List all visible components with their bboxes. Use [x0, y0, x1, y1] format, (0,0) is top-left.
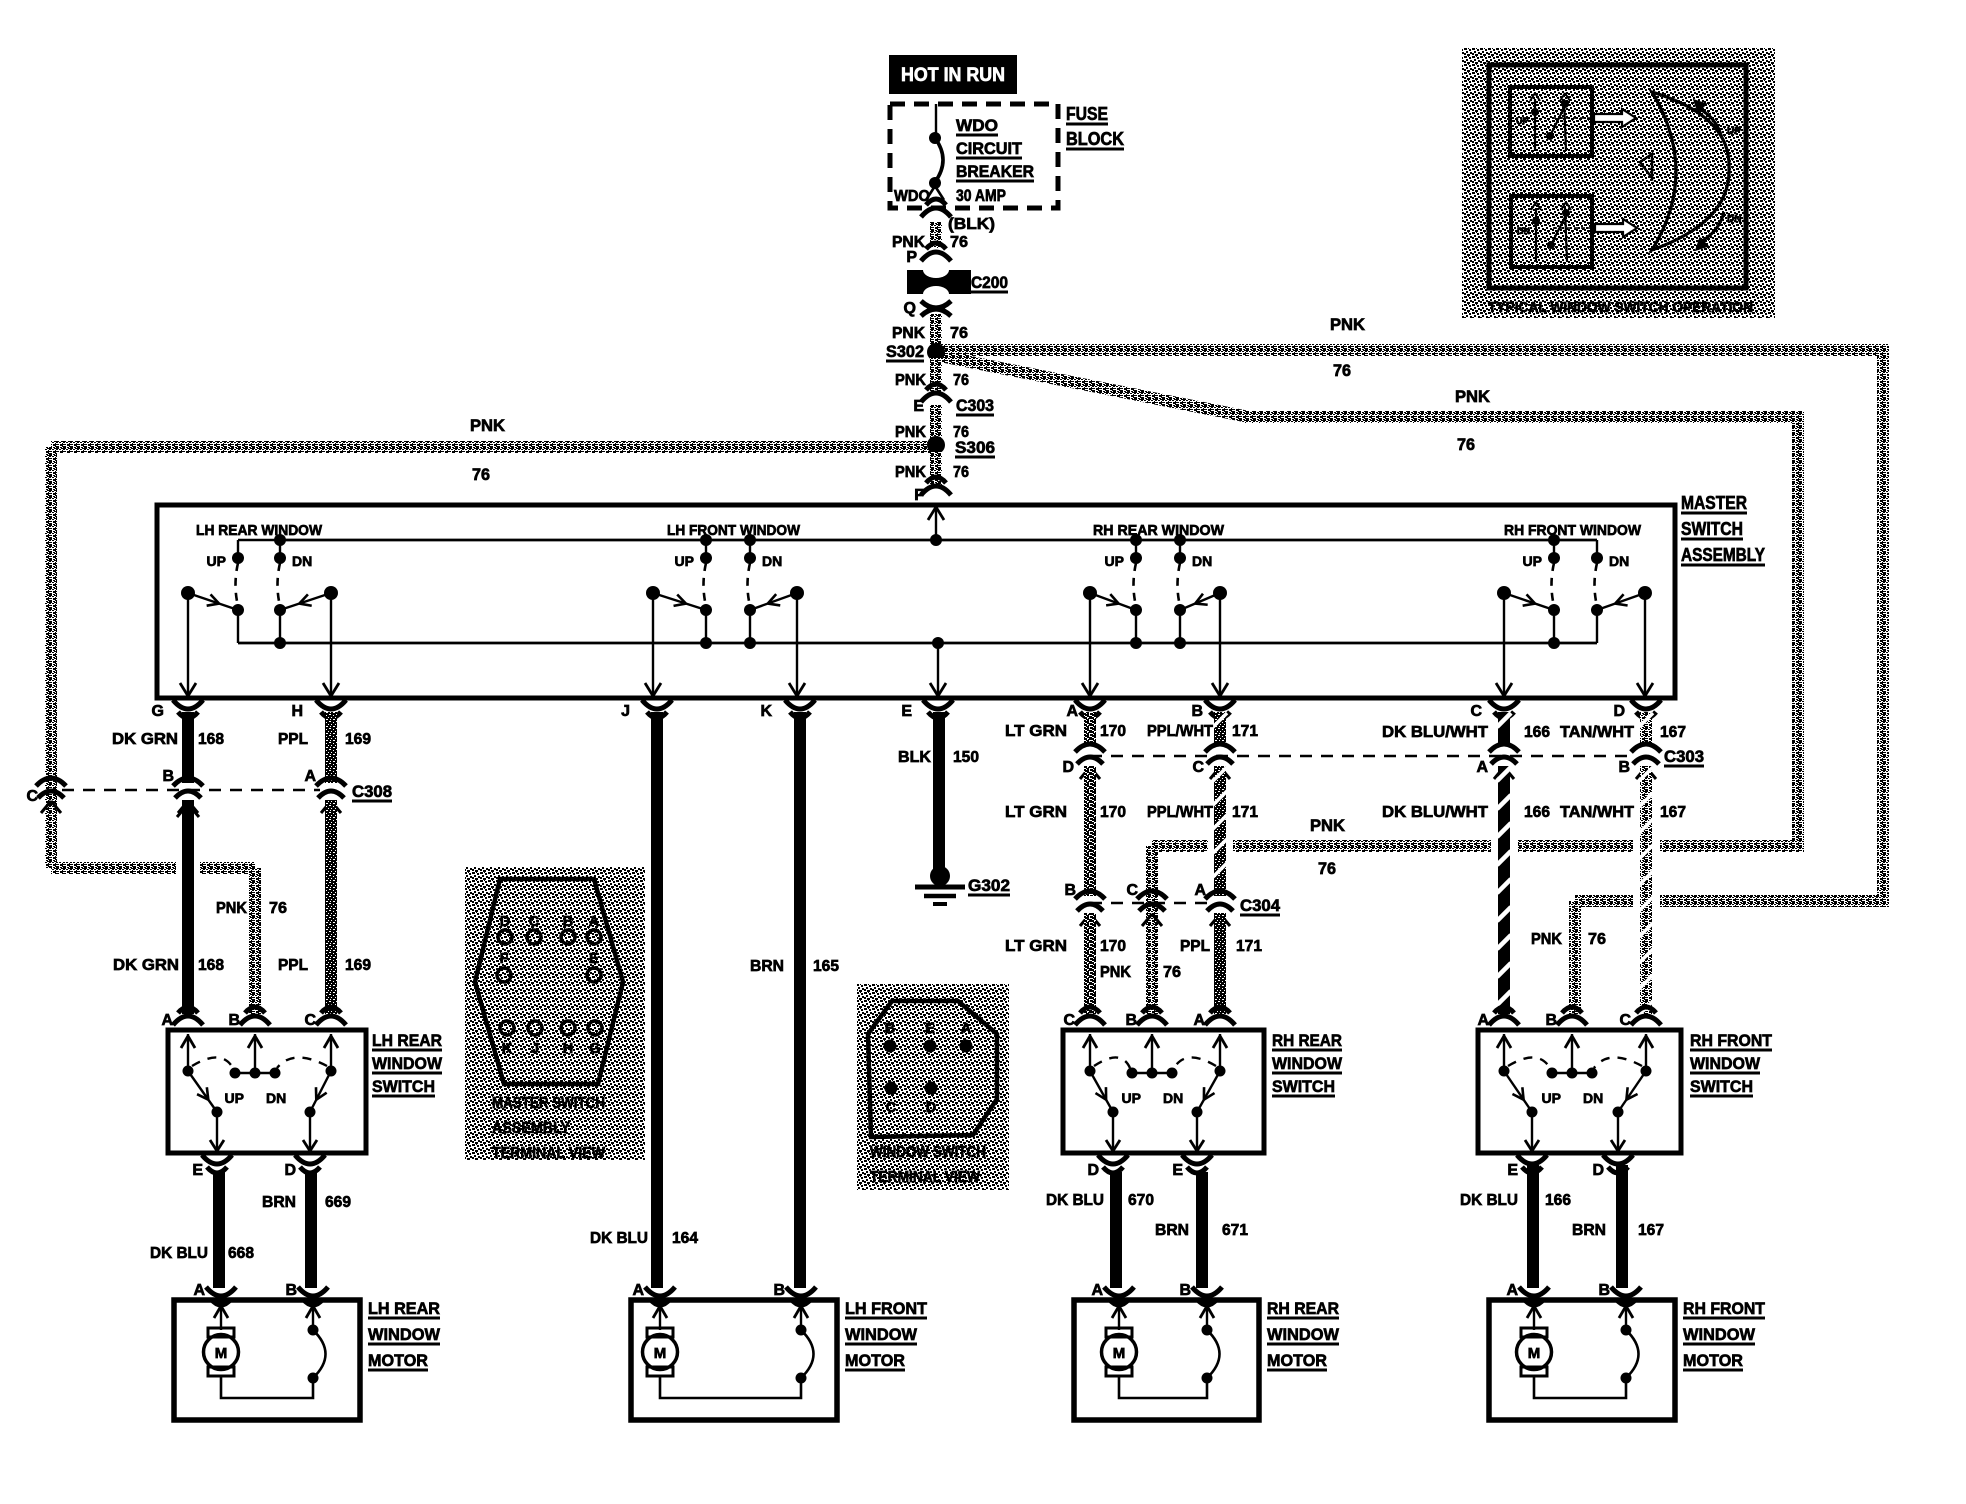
- svg-text:SWITCH: SWITCH: [372, 1077, 435, 1096]
- svg-text:MOTOR: MOTOR: [1267, 1351, 1327, 1370]
- svg-text:LH REAR: LH REAR: [372, 1031, 442, 1050]
- connector C200 body: [907, 270, 971, 294]
- wire PNK 76 from S302 right to right margin: [942, 344, 1889, 356]
- svg-text:DN: DN: [266, 1090, 286, 1106]
- svg-text:165: 165: [813, 958, 839, 975]
- svg-text:76: 76: [950, 325, 968, 342]
- svg-text:C: C: [1470, 703, 1482, 720]
- svg-text:P: P: [906, 249, 917, 266]
- svg-text:A: A: [1476, 759, 1488, 776]
- svg-text:D: D: [926, 1100, 936, 1116]
- svg-text:671: 671: [1222, 1222, 1248, 1239]
- wire PNK 76 C303 to S306: [930, 405, 942, 441]
- svg-text:ASSEMBLY: ASSEMBLY: [492, 1120, 570, 1137]
- LH front window motor: [631, 1282, 928, 1420]
- crossing gap PNK under DK BLU/WHT: [1491, 838, 1518, 855]
- svg-text:G: G: [589, 1041, 600, 1057]
- svg-text:J: J: [531, 1041, 539, 1057]
- svg-text:170: 170: [1100, 804, 1126, 821]
- svg-text:167: 167: [1638, 1222, 1664, 1239]
- connector C304 pin A: [1205, 891, 1235, 899]
- typical window switch operation inset panel: [1462, 48, 1775, 318]
- svg-text:(BLK): (BLK): [948, 216, 995, 233]
- svg-text:PPL/WHT: PPL/WHT: [1147, 804, 1213, 821]
- bottom bus: [238, 642, 1597, 645]
- svg-text:BRN: BRN: [1572, 1222, 1606, 1239]
- svg-text:A: A: [304, 768, 316, 785]
- svg-text:B: B: [1598, 1282, 1610, 1299]
- svg-text:168: 168: [198, 957, 224, 974]
- connector C304 pin B: [1075, 891, 1105, 899]
- svg-text:PNK: PNK: [895, 424, 926, 441]
- svg-text:150: 150: [953, 749, 979, 766]
- svg-text:DK BLU: DK BLU: [1046, 1192, 1104, 1209]
- svg-text:C: C: [304, 1012, 316, 1029]
- svg-text:76: 76: [1457, 436, 1475, 454]
- svg-text:RH REAR WINDOW: RH REAR WINDOW: [1093, 523, 1224, 539]
- svg-text:MOTOR: MOTOR: [845, 1351, 905, 1370]
- svg-text:169: 169: [345, 957, 371, 974]
- crossing gap PNK under TAN/WHT: [1633, 838, 1660, 855]
- master switch terminal view hexagon: [475, 879, 623, 1084]
- svg-text:TYPICAL WINDOW SWITCH OPERATIO: TYPICAL WINDOW SWITCH OPERATION: [1488, 299, 1753, 316]
- svg-text:A: A: [1193, 1012, 1205, 1029]
- wire PNK 76 from S306 left to left margin: [51, 441, 934, 453]
- svg-text:PPL: PPL: [278, 731, 308, 748]
- svg-text:RH FRONT: RH FRONT: [1683, 1299, 1766, 1318]
- svg-text:PNK: PNK: [1455, 388, 1490, 406]
- svg-text:B: B: [1545, 1012, 1557, 1029]
- master box pin K: [785, 700, 815, 709]
- splice S302: [927, 343, 945, 361]
- wire PPL 169 lower: [325, 800, 337, 1014]
- svg-text:E: E: [1507, 1162, 1518, 1179]
- svg-text:DK GRN: DK GRN: [113, 957, 179, 974]
- svg-text:LT GRN: LT GRN: [1005, 938, 1067, 955]
- svg-text:B: B: [285, 1282, 297, 1299]
- svg-text:C: C: [26, 788, 38, 805]
- window switch terminal view panel: [857, 984, 1009, 1190]
- LH front window switch section: [645, 523, 805, 696]
- svg-text:RH FRONT WINDOW: RH FRONT WINDOW: [1504, 523, 1641, 539]
- wire PNK 76 S302 to C303: [930, 358, 942, 394]
- svg-text:UP: UP: [225, 1090, 244, 1106]
- svg-text:A: A: [589, 914, 600, 930]
- master switch assembly box: [157, 505, 1675, 698]
- svg-text:B: B: [1125, 1012, 1137, 1029]
- svg-text:E: E: [589, 951, 599, 967]
- svg-text:SWITCH: SWITCH: [1681, 519, 1743, 539]
- svg-text:C: C: [1192, 759, 1204, 776]
- svg-text:BRN: BRN: [262, 1194, 296, 1211]
- connector C303 pin A: [1489, 744, 1519, 752]
- svg-text:PNK: PNK: [1330, 316, 1365, 334]
- svg-text:DN: DN: [1192, 553, 1212, 569]
- svg-text:A: A: [161, 1012, 173, 1029]
- LH rear window motor: [174, 1282, 441, 1420]
- LH rear window switch section: [180, 523, 339, 696]
- svg-text:167: 167: [1660, 804, 1686, 821]
- svg-text:D: D: [500, 914, 510, 930]
- svg-text:DN: DN: [1609, 553, 1629, 569]
- svg-text:WINDOW: WINDOW: [1683, 1325, 1756, 1344]
- RH front window switch section: [1496, 523, 1653, 696]
- window switch terminal view outline: [868, 1001, 997, 1137]
- RH rear window switch: [1063, 1007, 1343, 1179]
- svg-text:UP: UP: [1542, 1090, 1561, 1106]
- svg-text:B: B: [162, 768, 174, 785]
- svg-text:PPL/WHT: PPL/WHT: [1147, 723, 1213, 740]
- svg-text:76: 76: [953, 372, 969, 389]
- svg-text:E: E: [925, 1021, 935, 1037]
- master box pin G: [173, 700, 203, 709]
- svg-text:DK BLU: DK BLU: [1460, 1192, 1518, 1209]
- wire PPL 169 upper: [325, 712, 337, 783]
- svg-text:670: 670: [1128, 1192, 1154, 1209]
- svg-text:E: E: [192, 1162, 203, 1179]
- svg-text:C: C: [1063, 1012, 1075, 1029]
- svg-text:WINDOW: WINDOW: [1690, 1054, 1761, 1073]
- svg-text:DN: DN: [1517, 226, 1530, 236]
- wire DK GRN 168 upper: [182, 712, 194, 783]
- connector C308 dashed line: [62, 789, 320, 791]
- svg-text:166: 166: [1524, 724, 1550, 741]
- arrow from UP sub-box: [1594, 109, 1636, 127]
- arrow from DN sub-box: [1595, 219, 1637, 237]
- wire PNK 76 S306 to master switch: [930, 452, 942, 487]
- wire BLK 150: [933, 712, 945, 869]
- svg-text:76: 76: [1588, 931, 1606, 948]
- svg-text:UP: UP: [1516, 116, 1529, 126]
- connector C303 pin B: [1631, 744, 1661, 752]
- svg-text:DN: DN: [762, 553, 782, 569]
- svg-text:MASTER SWITCH: MASTER SWITCH: [492, 1095, 605, 1112]
- wire TAN/WHT 167 lower: [1640, 766, 1652, 1014]
- svg-text:LH FRONT WINDOW: LH FRONT WINDOW: [667, 523, 800, 539]
- svg-text:A: A: [193, 1282, 205, 1299]
- wire PNK 76 second vertical (to RH rear): [1792, 417, 1804, 846]
- connector C308 pin B: [173, 778, 203, 786]
- svg-text:D: D: [1592, 1162, 1604, 1179]
- svg-text:TERMINAL VIEW: TERMINAL VIEW: [492, 1145, 606, 1162]
- svg-text:FUSE: FUSE: [1066, 104, 1108, 124]
- RH front window motor: [1489, 1282, 1766, 1420]
- svg-text:166: 166: [1545, 1192, 1571, 1209]
- wire TAN/WHT 167 upper: [1640, 712, 1652, 745]
- svg-text:B: B: [773, 1282, 785, 1299]
- master switch terminal pins: [497, 914, 602, 1057]
- svg-text:76: 76: [953, 464, 969, 481]
- svg-text:C308: C308: [352, 783, 392, 801]
- svg-text:166: 166: [1524, 804, 1550, 821]
- svg-text:LH REAR: LH REAR: [368, 1299, 440, 1318]
- wire PNK 76 C200 to S302: [930, 314, 942, 347]
- svg-text:DK BLU: DK BLU: [150, 1245, 208, 1262]
- svg-text:H: H: [291, 703, 303, 720]
- svg-text:MOTOR: MOTOR: [1683, 1351, 1743, 1370]
- svg-text:H: H: [563, 1041, 573, 1057]
- wire BRN 165: [794, 712, 806, 1288]
- svg-text:DK GRN: DK GRN: [112, 731, 178, 748]
- HOT IN RUN feed box: [889, 55, 1017, 94]
- wire DK BLU 670: [1110, 1172, 1122, 1288]
- svg-text:PPL: PPL: [1180, 938, 1210, 955]
- svg-text:B: B: [228, 1012, 240, 1029]
- wire PNK 76 left loop bottom horizontal: [51, 862, 255, 874]
- svg-text:C303: C303: [1664, 748, 1704, 766]
- master box pin E: [923, 700, 953, 709]
- svg-text:DK BLU/WHT: DK BLU/WHT: [1382, 804, 1488, 821]
- svg-text:WDO: WDO: [894, 188, 930, 205]
- master box pin D: [1631, 700, 1661, 709]
- svg-text:UP: UP: [1727, 126, 1741, 137]
- svg-text:BRN: BRN: [1155, 1222, 1189, 1239]
- wire BRN 671: [1196, 1172, 1208, 1288]
- svg-text:WDO: WDO: [956, 117, 998, 135]
- RH rear window motor: [1074, 1282, 1340, 1420]
- svg-text:RH REAR: RH REAR: [1267, 1299, 1339, 1318]
- svg-text:TERMINAL VIEW: TERMINAL VIEW: [870, 1169, 981, 1186]
- svg-text:C: C: [886, 1100, 897, 1116]
- svg-text:UP: UP: [1523, 553, 1542, 569]
- svg-text:UP: UP: [1122, 1090, 1141, 1106]
- svg-text:C303: C303: [956, 397, 994, 415]
- window switch terminal pins: [884, 1021, 973, 1116]
- svg-text:PPL: PPL: [278, 957, 308, 974]
- WDO circuit breaker symbol: [935, 104, 937, 136]
- svg-text:PNK: PNK: [892, 325, 925, 342]
- svg-text:76: 76: [950, 234, 968, 251]
- connector C308 pin C: [36, 778, 66, 786]
- pin E drop with arrow: [937, 643, 939, 696]
- svg-text:76: 76: [1318, 860, 1336, 878]
- svg-text:PNK: PNK: [1531, 931, 1562, 948]
- top bus: [280, 539, 1597, 542]
- svg-text:167: 167: [1660, 724, 1686, 741]
- svg-text:LT GRN: LT GRN: [1005, 804, 1067, 821]
- wire PPL 171 lower: [1214, 913, 1226, 1014]
- svg-text:A: A: [632, 1282, 644, 1299]
- svg-text:DK BLU: DK BLU: [590, 1230, 648, 1247]
- crossing gap PNK under PPL/WHT: [1208, 838, 1233, 855]
- master switch sub-box DN: [1511, 196, 1592, 267]
- svg-text:K: K: [760, 703, 772, 720]
- svg-text:D: D: [1062, 759, 1074, 776]
- svg-text:WINDOW: WINDOW: [1267, 1325, 1340, 1344]
- svg-text:M: M: [215, 1345, 228, 1362]
- wire BRN 669: [305, 1172, 317, 1288]
- svg-text:C304: C304: [1240, 897, 1281, 915]
- svg-text:C200: C200: [971, 274, 1008, 292]
- svg-text:169: 169: [345, 731, 371, 748]
- master switch assembly terminal view panel: [465, 867, 645, 1160]
- svg-text:M: M: [1113, 1345, 1126, 1362]
- svg-text:UP: UP: [1105, 553, 1124, 569]
- svg-text:DN: DN: [1727, 214, 1741, 225]
- master box pin H: [316, 700, 346, 709]
- svg-text:MASTER: MASTER: [1681, 493, 1747, 513]
- svg-text:76: 76: [1333, 362, 1351, 380]
- svg-text:A: A: [1066, 703, 1078, 720]
- bottom bus E junction: [932, 637, 944, 649]
- wire PNK 76 drop to LH rear switch pin B: [249, 868, 261, 1014]
- svg-text:F: F: [500, 951, 509, 967]
- svg-text:D: D: [1613, 703, 1625, 720]
- svg-text:669: 669: [325, 1194, 351, 1211]
- svg-text:MOTOR: MOTOR: [368, 1351, 428, 1370]
- svg-text:168: 168: [198, 731, 224, 748]
- svg-text:HOT IN RUN: HOT IN RUN: [901, 65, 1005, 86]
- svg-text:BLOCK: BLOCK: [1066, 129, 1124, 149]
- svg-text:B: B: [1618, 759, 1630, 776]
- svg-text:DN: DN: [292, 553, 312, 569]
- svg-text:UP: UP: [207, 553, 226, 569]
- master box pin B: [1205, 700, 1235, 709]
- svg-text:B: B: [1191, 703, 1203, 720]
- svg-text:WINDOW: WINDOW: [1272, 1054, 1343, 1073]
- svg-text:S302: S302: [886, 343, 924, 361]
- wire PNK 76 diagonal S302 toward RH: [940, 356, 1249, 417]
- svg-text:Q: Q: [904, 300, 916, 317]
- top bus feed junction: [930, 534, 942, 546]
- svg-text:M: M: [1528, 1345, 1541, 1362]
- svg-text:RH FRONT: RH FRONT: [1690, 1031, 1773, 1050]
- svg-text:PNK: PNK: [470, 417, 505, 435]
- svg-text:BREAKER: BREAKER: [956, 163, 1034, 181]
- wire DK BLU 164: [651, 712, 663, 1288]
- svg-text:J: J: [621, 703, 630, 720]
- svg-text:170: 170: [1100, 938, 1126, 955]
- svg-text:171: 171: [1232, 804, 1258, 821]
- svg-text:B: B: [563, 914, 573, 930]
- wire PNK 76 fuse block to C200: [930, 222, 942, 248]
- svg-text:A: A: [1194, 882, 1206, 899]
- svg-text:A: A: [1477, 1012, 1489, 1029]
- wire PNK 76 drop to C304 pin C: [1146, 846, 1158, 1014]
- svg-text:UP: UP: [675, 553, 694, 569]
- svg-text:B: B: [1179, 1282, 1191, 1299]
- svg-text:TAN/WHT: TAN/WHT: [1560, 804, 1634, 821]
- svg-text:WINDOW: WINDOW: [368, 1325, 441, 1344]
- splice S306: [927, 436, 945, 454]
- svg-text:BRN: BRN: [750, 958, 784, 975]
- master box pin J: [642, 700, 672, 709]
- svg-text:LH FRONT: LH FRONT: [845, 1299, 928, 1318]
- svg-text:C: C: [1126, 882, 1138, 899]
- svg-text:TAN/WHT: TAN/WHT: [1560, 724, 1634, 741]
- svg-text:SWITCH: SWITCH: [1690, 1077, 1753, 1096]
- connector at fuse block output (BLK): [921, 208, 951, 217]
- wire PNK 76 left margin vertical: [45, 447, 57, 868]
- svg-text:PNK: PNK: [895, 464, 926, 481]
- wire DK BLU 166 (switch to motor): [1527, 1165, 1539, 1288]
- svg-text:76: 76: [472, 466, 490, 484]
- wire LT GRN 170 upper: [1084, 712, 1096, 745]
- connector half F: [921, 486, 951, 495]
- wire DK GRN 168 lower: [182, 800, 194, 1014]
- RH front window switch: [1477, 1007, 1772, 1179]
- svg-text:171: 171: [1232, 723, 1258, 740]
- svg-text:G: G: [152, 703, 164, 720]
- RH rear window switch section: [1082, 523, 1228, 696]
- connector half P: [921, 252, 951, 261]
- svg-text:B: B: [1064, 882, 1076, 899]
- ground G302: [930, 866, 950, 886]
- svg-text:PNK: PNK: [1100, 964, 1131, 981]
- svg-text:171: 171: [1236, 938, 1262, 955]
- svg-text:SWITCH: SWITCH: [1272, 1077, 1335, 1096]
- svg-text:164: 164: [672, 1230, 698, 1247]
- feed entry arrow into master box: [935, 508, 937, 540]
- connector C303 on feed: [921, 393, 951, 402]
- fuse block dashed outline: [890, 104, 1058, 208]
- wire BRN 167 (switch to motor): [1616, 1165, 1628, 1288]
- LH rear window switch: [161, 1007, 442, 1179]
- svg-text:170: 170: [1100, 723, 1126, 740]
- svg-text:RH REAR: RH REAR: [1272, 1031, 1342, 1050]
- typical window switch operation inner box: [1489, 65, 1746, 288]
- svg-text:PNK: PNK: [895, 372, 926, 389]
- svg-text:A: A: [1091, 1282, 1103, 1299]
- svg-text:LT GRN: LT GRN: [1005, 723, 1067, 740]
- svg-text:E: E: [1172, 1162, 1183, 1179]
- svg-text:K: K: [502, 1041, 513, 1057]
- svg-text:A: A: [961, 1021, 972, 1037]
- svg-text:E: E: [901, 703, 912, 720]
- svg-text:D: D: [284, 1162, 296, 1179]
- svg-text:B: B: [885, 1021, 895, 1037]
- connector C303 pin D: [1075, 744, 1105, 752]
- svg-text:WINDOW SWITCH: WINDOW SWITCH: [870, 1144, 986, 1161]
- connector C303 dashed line: [1090, 755, 1630, 757]
- svg-text:D: D: [1087, 1162, 1099, 1179]
- svg-text:ASSEMBLY: ASSEMBLY: [1681, 545, 1765, 565]
- master box pin C: [1489, 700, 1519, 709]
- svg-text:A: A: [1506, 1282, 1518, 1299]
- svg-text:CIRCUIT: CIRCUIT: [956, 140, 1022, 158]
- wire DK BLU 668: [213, 1172, 225, 1288]
- svg-text:PNK: PNK: [1310, 817, 1345, 835]
- svg-text:S306: S306: [955, 439, 995, 457]
- wire LT GRN 170 mid: [1084, 766, 1096, 896]
- wire PNK 76 drop to RH front switch pin B: [1569, 901, 1581, 1014]
- svg-text:DK BLU/WHT: DK BLU/WHT: [1382, 724, 1488, 741]
- svg-text:668: 668: [228, 1245, 254, 1262]
- svg-text:WINDOW: WINDOW: [845, 1325, 918, 1344]
- connector C304 pin C: [1137, 891, 1167, 899]
- svg-text:WINDOW: WINDOW: [372, 1054, 443, 1073]
- wire PPL/WHT 171 mid: [1214, 766, 1226, 896]
- svg-text:LH REAR WINDOW: LH REAR WINDOW: [196, 523, 322, 539]
- svg-text:PNK: PNK: [216, 900, 247, 917]
- wire PNK 76 return to RH rear switch: [1152, 840, 1804, 852]
- master box pin A: [1075, 700, 1105, 709]
- wire DK BLU/WHT 166 upper: [1498, 712, 1510, 745]
- wire LT GRN 170 lower: [1084, 913, 1096, 1014]
- svg-text:C: C: [529, 914, 540, 930]
- connector C303 pin C: [1205, 744, 1235, 752]
- svg-text:BLK: BLK: [898, 749, 931, 766]
- master switch sub-box UP: [1510, 87, 1592, 156]
- svg-text:DN: DN: [1163, 1090, 1183, 1106]
- svg-text:M: M: [654, 1345, 667, 1362]
- svg-text:G302: G302: [968, 877, 1010, 895]
- connector C304 dashed line: [1090, 902, 1210, 904]
- connector C308 pin A: [316, 778, 346, 786]
- wire PNK 76 return to RH front switch: [1575, 895, 1889, 907]
- wire PNK 76 right margin vertical (to RH front): [1877, 350, 1889, 901]
- rocker switch crescent: [1652, 92, 1729, 250]
